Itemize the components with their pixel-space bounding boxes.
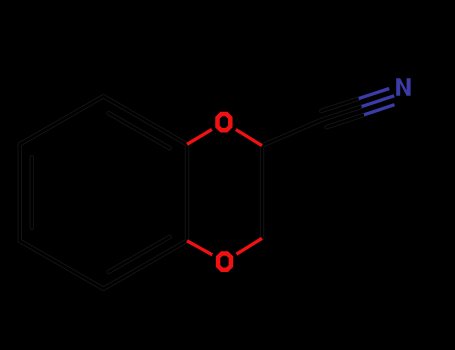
wire: aromatic inner left (core)	[30, 157, 33, 228]
wire: C2-Cnitrile	[262, 120, 322, 146]
wire: triple lower black half (core)	[327, 115, 364, 127]
wire: aromatic inner top-right	[109, 113, 170, 148]
bond O1-C2 red	[236, 130, 262, 146]
wire: triple upper blue half	[359, 89, 390, 99]
wire: triple center black half (core)	[322, 107, 362, 120]
wire: dioxane C2-C3	[260, 146, 264, 239]
wire: aromatic inner top-right (core)	[109, 113, 170, 148]
wire: aromatic inner left	[30, 157, 34, 228]
wire: aromatic inner bottom-right	[109, 237, 170, 272]
bond C8a-O1 red	[187, 129, 212, 144]
bond C4a-O4 red	[187, 241, 212, 255]
atom O4 (bottom)	[218, 254, 231, 270]
black bonds: core layer	[20, 96, 364, 288]
wire: triple lower blue half	[364, 105, 395, 115]
atom O1 (top)	[218, 114, 231, 130]
bond O4-C3 red	[236, 238, 262, 254]
triple bond blue halves	[359, 89, 395, 115]
wire: dioxane C2-C3 (core)	[261, 146, 264, 239]
wire: triple center blue half	[362, 96, 395, 107]
wire: triple center black half	[322, 107, 362, 120]
wire: triple lower black half	[327, 115, 364, 127]
black bonds: faint anti-alias fringe layer	[20, 96, 364, 288]
atom N	[396, 78, 410, 96]
wire: benzene outline	[20, 96, 187, 288]
wire: aromatic inner bottom-right (core)	[109, 237, 170, 272]
wire: benzene outline (core)	[20, 96, 187, 288]
wire: triple upper black half (core)	[321, 99, 358, 111]
wire: triple upper black half	[321, 99, 358, 111]
wire: C2-Cnitrile (core)	[262, 120, 322, 146]
